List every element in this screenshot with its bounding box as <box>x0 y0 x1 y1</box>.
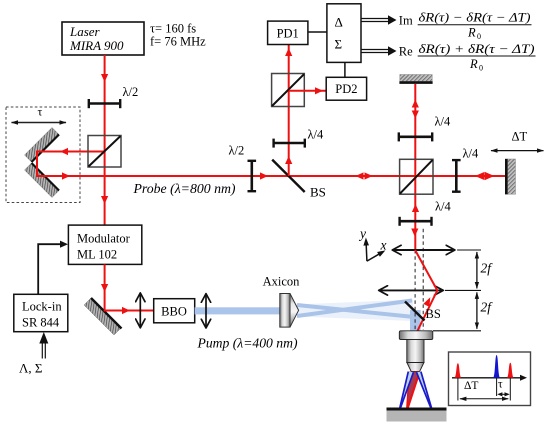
svg-text:Δ: Δ <box>335 15 343 30</box>
laser pulse spec text <box>150 22 206 49</box>
svg-text:λ/2: λ/2 <box>229 144 245 158</box>
svg-text:Lock-in: Lock-in <box>22 300 62 314</box>
svg-text:Probe (λ=800 nm): Probe (λ=800 nm) <box>132 181 235 196</box>
svg-text:Σ: Σ <box>335 37 343 52</box>
wire arrow up below cube <box>412 204 419 212</box>
svg-text:Re: Re <box>399 45 413 59</box>
wire arrow down below lambda/4 <box>411 229 418 237</box>
svg-text:PD2: PD2 <box>335 82 357 96</box>
output arrow Re <box>361 46 397 56</box>
svg-text:R: R <box>467 26 476 40</box>
wire counter-propagating arrows on probe <box>356 172 364 179</box>
wire arrows up/down below top mirror <box>412 100 419 108</box>
wire arrow down to mirror <box>101 284 108 292</box>
wire PD1 to sum box <box>308 31 327 33</box>
wire: beam into retroreflector <box>37 151 105 153</box>
svg-text:SR 844: SR 844 <box>22 316 60 330</box>
wire arrow up into PD1 <box>285 48 292 56</box>
delay translation double arrow <box>12 122 67 124</box>
svg-text:BBO: BBO <box>161 305 187 319</box>
lens L2 (4f system) <box>379 289 442 291</box>
wire: beam mirror to BBO <box>104 310 154 312</box>
formula Im <box>399 11 532 42</box>
fold mirror (45 deg) <box>84 298 122 335</box>
wire: beam modulator to fold mirror <box>104 264 106 311</box>
svg-text:x: x <box>380 238 387 253</box>
wire: retro vertical jog <box>36 151 38 178</box>
waveplate lambda/2 (vertical, in probe) <box>229 144 257 193</box>
wire: beam to PD2 <box>289 90 327 92</box>
waveplate lambda/2 (in laser beam) <box>88 85 138 108</box>
lens L3 <box>139 294 141 328</box>
wire arrow right on probe before BS <box>260 172 268 179</box>
svg-text:τ= 160 fs: τ= 160 fs <box>150 22 196 36</box>
lens L4 <box>205 294 207 327</box>
svg-text:Λ, Σ: Λ, Σ <box>19 361 43 376</box>
svg-text:τ: τ <box>38 105 43 119</box>
svg-text:MIRA 900: MIRA 900 <box>69 38 124 53</box>
sample <box>387 409 447 422</box>
interferometer beam splitter cube <box>400 159 433 194</box>
wire: tilted beam lens1-lens2-BS <box>415 250 437 331</box>
optical axis dashed line (left) <box>414 250 416 330</box>
droplines <box>457 378 459 401</box>
polarizing beam splitter cube (detection) <box>272 74 305 107</box>
waveplate lambda/4 (right, vertical) <box>452 147 479 193</box>
delay stage dashed box <box>6 107 80 203</box>
svg-text:ΔT: ΔT <box>512 130 528 144</box>
svg-text:λ/2: λ/2 <box>123 85 139 99</box>
pump beam band to axicon <box>195 307 280 314</box>
wire: reflected probe up to detection <box>288 45 290 177</box>
retroreflector mirror M1 (top) <box>25 128 60 163</box>
microscope objective <box>399 331 433 372</box>
svg-text:ML 102: ML 102 <box>77 248 117 262</box>
svg-text:Axicon: Axicon <box>263 275 301 289</box>
Delta-T translation double arrow <box>491 150 544 152</box>
red pulse 2 <box>507 363 514 378</box>
retroreflector mirror M2 (bottom) <box>25 163 60 198</box>
svg-text:0: 0 <box>479 63 483 72</box>
BBO crystal box <box>154 299 195 323</box>
tau dimension arrow <box>499 393 508 395</box>
wire arrow into PD2 <box>315 87 323 94</box>
post-axicon crossing beams <box>297 300 419 322</box>
formula Re <box>399 42 536 73</box>
svg-text:BS: BS <box>426 307 441 321</box>
wire arrow down on laser beam <box>101 74 108 82</box>
wire lock-in to modulator <box>38 244 64 294</box>
reference input arrow <box>39 332 48 359</box>
svg-text:Pump (λ=400 nm): Pump (λ=400 nm) <box>196 336 297 351</box>
waveplate lambda/4 (top of cube) <box>398 115 451 142</box>
inset time axis <box>452 377 521 379</box>
svg-text:R: R <box>469 57 478 71</box>
laser box <box>62 22 144 55</box>
waveplate lambda/4 (bottom of cube) <box>399 200 452 226</box>
Delta-T dimension arrow <box>460 398 508 400</box>
wire arrow right out of retro <box>62 172 70 179</box>
wire: laser output beam down to modulator <box>104 55 106 225</box>
wire sum box to PD2 <box>344 62 346 77</box>
difference/sum box <box>327 4 361 63</box>
svg-text:0: 0 <box>477 32 481 41</box>
wire arrow down above modulator <box>101 196 108 204</box>
lens L1 (4f system) <box>393 249 454 251</box>
svg-text:PD1: PD1 <box>277 26 299 40</box>
beam splitter BS2 (pump injection) <box>405 302 441 322</box>
beam splitter BS (plate) <box>272 160 326 200</box>
red pulse 1 <box>455 363 462 378</box>
dimension line 2f (lower) <box>476 292 478 328</box>
top mirror (reference arm) <box>399 75 432 83</box>
coordinate axes x-y <box>358 226 387 261</box>
svg-text:τ: τ <box>498 379 503 391</box>
inset pulse-sequence box <box>449 352 531 406</box>
detector PD2 <box>326 77 366 100</box>
wire: probe beam out of retro across table <box>37 175 506 177</box>
dimension ticks at lens planes <box>457 249 481 251</box>
svg-text:BS: BS <box>310 185 326 200</box>
wire: vertical beam through interferometer cube <box>414 84 416 250</box>
svg-text:λ/4: λ/4 <box>308 128 325 142</box>
dimension line 2f (upper) <box>476 252 478 288</box>
axicon lens <box>263 275 301 328</box>
wire counter-propagating arrows before Delta-T mirror <box>475 172 485 180</box>
focused pump cones (blue) <box>400 372 432 409</box>
modulator box <box>68 225 141 264</box>
wire arrow up-right on return beam <box>423 297 430 307</box>
Delta-T mirror <box>506 159 515 195</box>
wire arrow right to BBO <box>122 307 130 314</box>
svg-text:δR(τ) − δR(τ − ΔT): δR(τ) − δR(τ − ΔT) <box>419 11 531 25</box>
svg-text:δR(τ) + δR(τ − ΔT): δR(τ) + δR(τ − ΔT) <box>419 42 535 56</box>
svg-text:y: y <box>358 226 366 241</box>
optical axis dashed line (right) <box>422 229 424 330</box>
svg-text:Im: Im <box>399 14 413 28</box>
svg-text:ΔT: ΔT <box>464 380 478 392</box>
blue pulse <box>493 355 500 378</box>
focused probe cone (red) <box>407 372 420 409</box>
svg-text:λ/4: λ/4 <box>435 115 452 129</box>
beam splitter cube BS1 <box>88 136 121 168</box>
output arrow Im <box>361 15 397 25</box>
svg-text:Modulator: Modulator <box>77 232 131 246</box>
svg-text:f= 76 MHz: f= 76 MHz <box>150 35 206 49</box>
pump beam reflected down into objective <box>410 310 421 332</box>
lock-in box <box>14 294 68 331</box>
wire arrow up above BS <box>285 156 292 164</box>
svg-text:λ/4: λ/4 <box>463 147 480 161</box>
waveplate lambda/4 (detection arm) <box>273 128 324 148</box>
detector PD1 <box>268 21 308 44</box>
svg-text:λ/4: λ/4 <box>435 200 452 214</box>
wire arrow left into retro <box>60 148 68 155</box>
svg-text:Laser: Laser <box>69 24 101 39</box>
